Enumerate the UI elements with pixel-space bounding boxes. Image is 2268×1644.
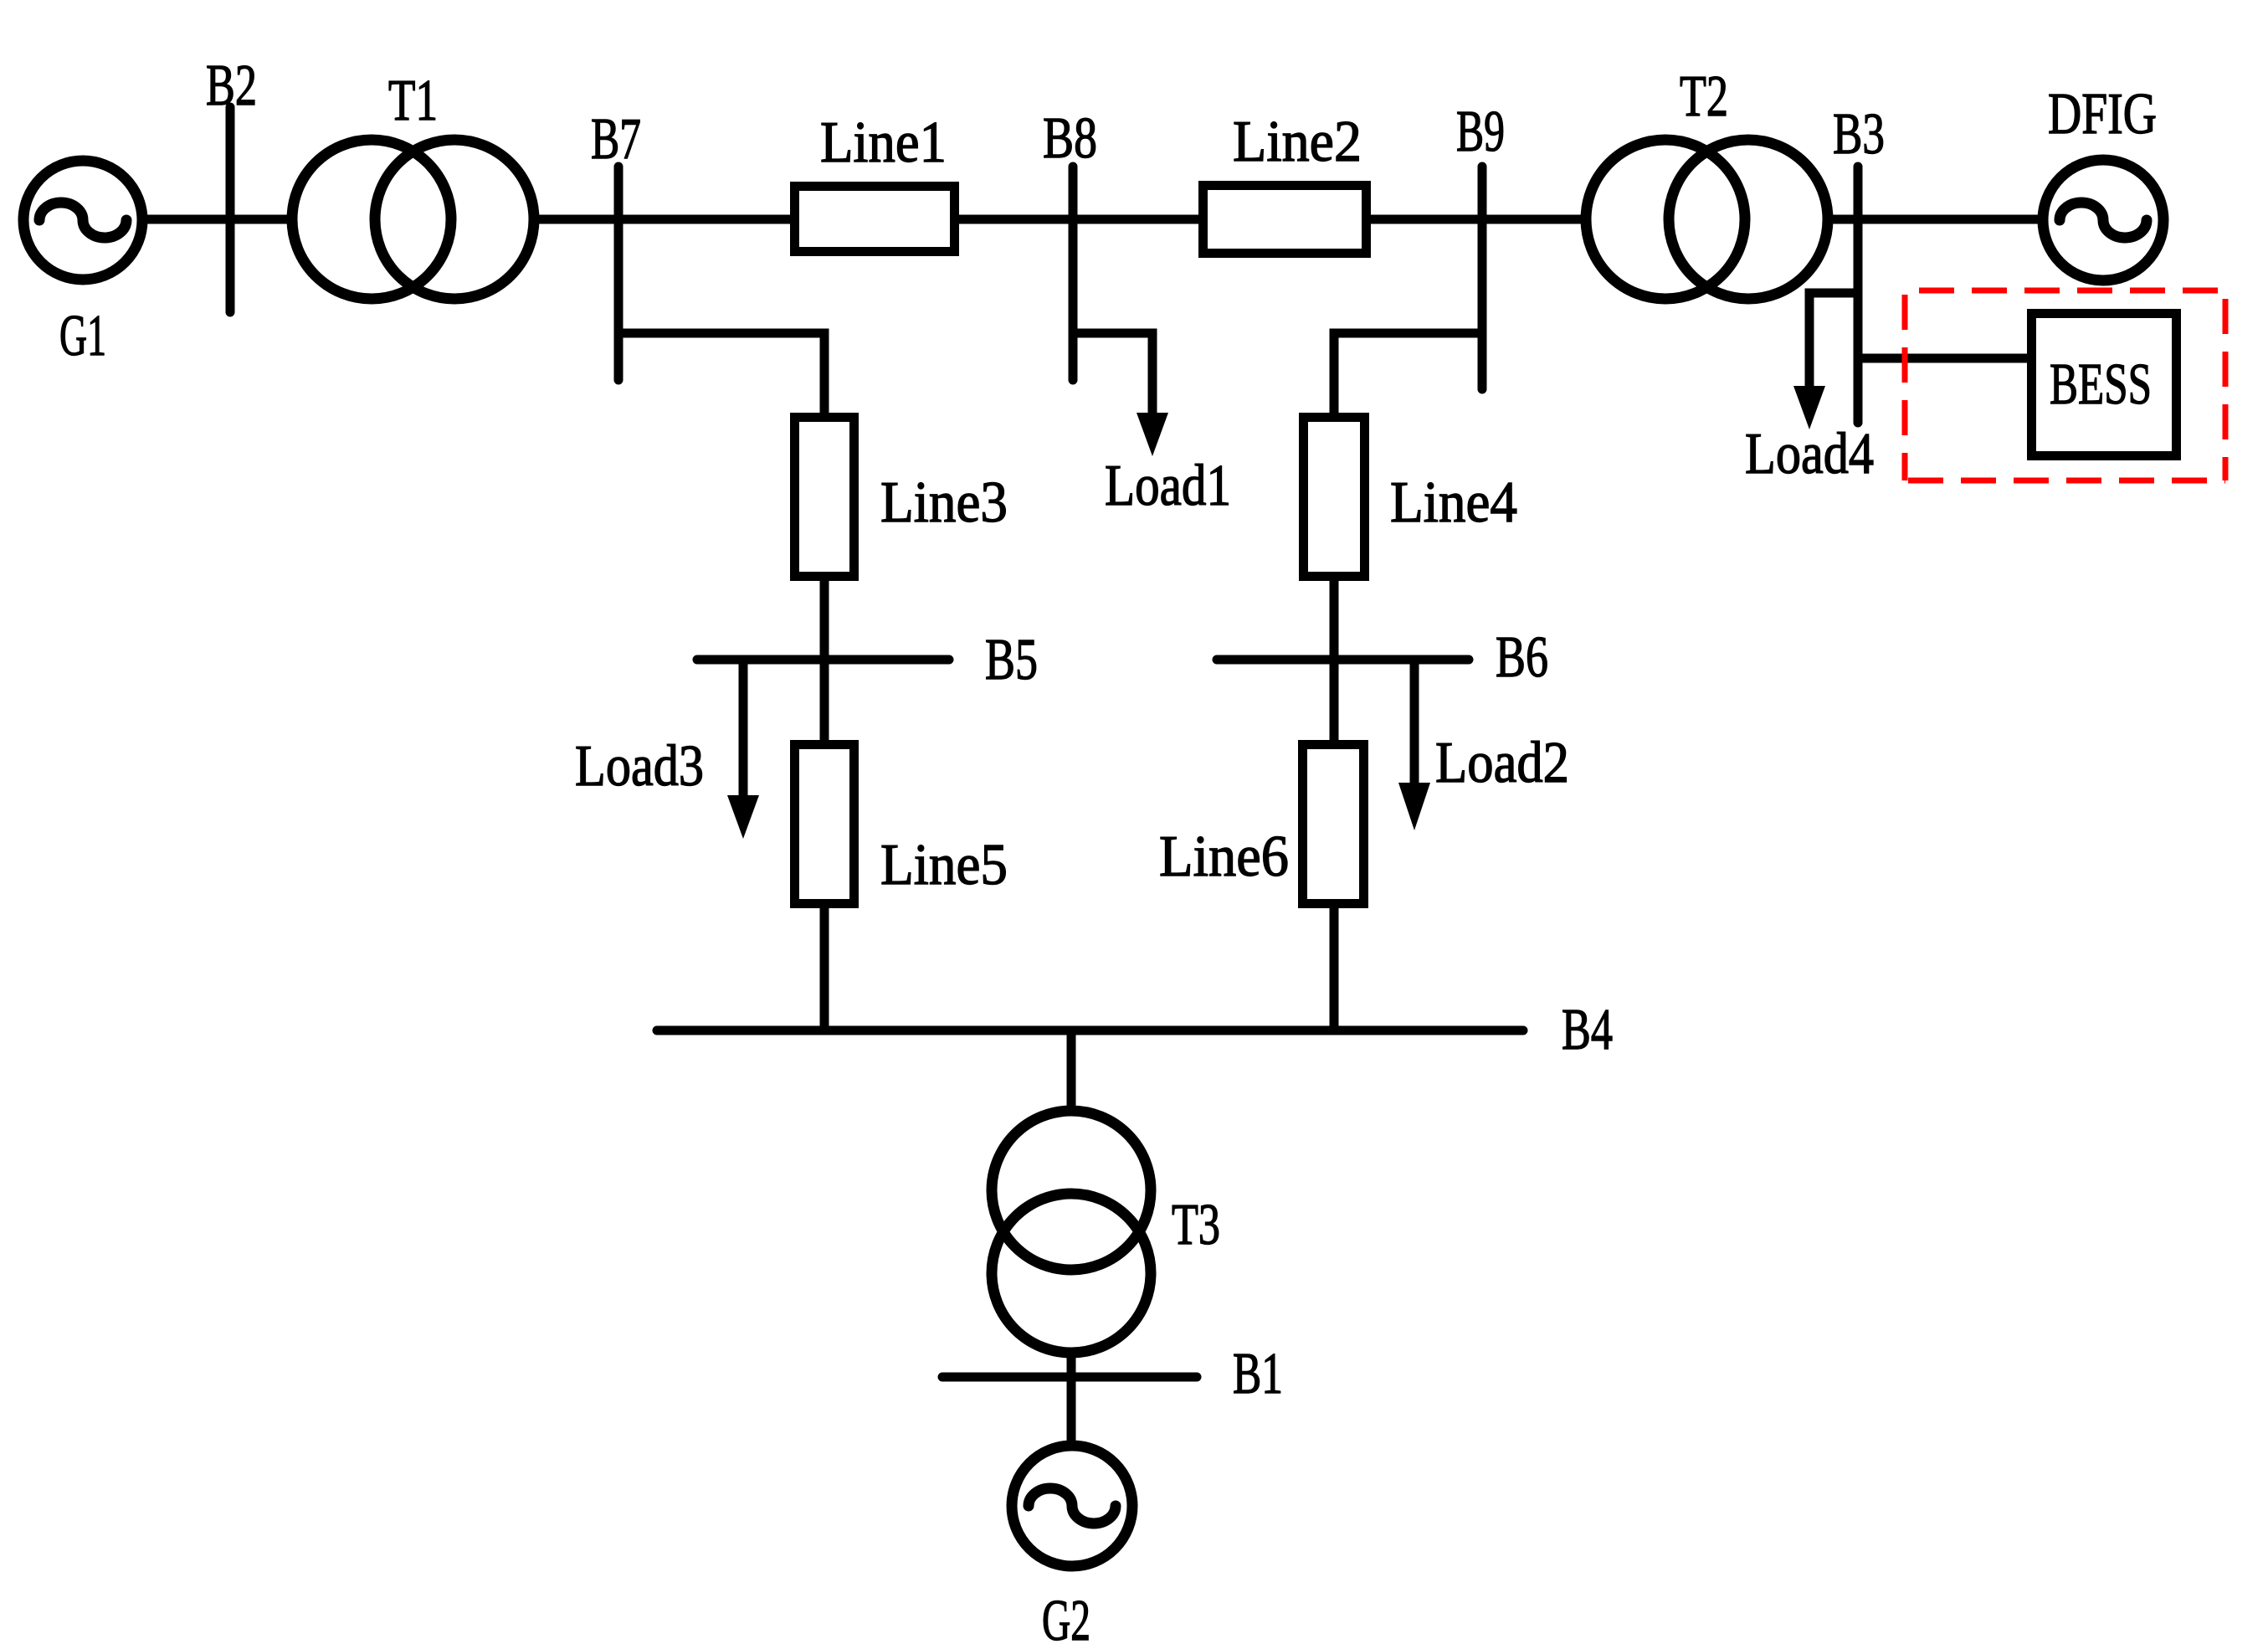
wire Line3 to B5 [820, 579, 829, 660]
line Line5 [795, 745, 854, 904]
svg-text:Load1: Load1 [1105, 454, 1231, 518]
wire T1 to Line1 [540, 215, 792, 224]
svg-text:Line2: Line2 [1233, 110, 1362, 174]
svg-text:T1: T1 [388, 69, 438, 133]
svg-text:B7: B7 [591, 107, 641, 172]
bus B2 [226, 107, 235, 312]
load Load3 arrow line [739, 660, 748, 799]
svg-text:Line5: Line5 [880, 833, 1008, 897]
wire B8 branch to Load1 [1073, 333, 1152, 417]
load Load1 arrowhead [1137, 413, 1168, 456]
load Load2 arrow line [1410, 660, 1419, 787]
generator G2 [1012, 1446, 1132, 1566]
svg-text:T3: T3 [1172, 1193, 1220, 1257]
load Load1 arrow line [1148, 333, 1157, 417]
wire B3 to BESS [1858, 354, 2029, 363]
transformer T1 [292, 140, 451, 299]
wire B4 to T3 [1067, 1030, 1076, 1108]
bus B9 [1478, 167, 1487, 389]
svg-text:G2: G2 [1042, 1589, 1090, 1644]
wire B5 to Line5 [820, 660, 829, 742]
bus B7 [614, 167, 623, 380]
svg-text:B3: B3 [1833, 102, 1885, 167]
svg-text:Line3: Line3 [880, 470, 1008, 535]
svg-text:Load2: Load2 [1435, 731, 1569, 795]
bus B6 [1217, 655, 1469, 665]
wire T3 to B1 [1067, 1355, 1076, 1377]
wire Line2 to T2 [1369, 215, 1583, 224]
svg-text:B1: B1 [1233, 1342, 1283, 1406]
generator DFIG [2043, 160, 2163, 280]
BESS red dashed boundary [1905, 290, 2225, 480]
wire Line4 to B6 [1330, 579, 1339, 660]
load Load2 arrowhead [1398, 783, 1430, 830]
svg-text:Load3: Load3 [575, 734, 704, 799]
svg-text:G1: G1 [59, 304, 106, 368]
wire Line1 to Line2 [957, 215, 1200, 224]
svg-text:B9: B9 [1456, 100, 1505, 164]
svg-text:Line4: Line4 [1390, 470, 1517, 535]
svg-text:DFIG: DFIG [2048, 82, 2157, 146]
line Line4 [1304, 418, 1365, 577]
svg-text:B4: B4 [1562, 998, 1613, 1062]
load Load4 arrowhead [1793, 386, 1825, 429]
svg-text:B5: B5 [985, 628, 1038, 692]
svg-text:B8: B8 [1043, 106, 1097, 171]
bus B1 [942, 1373, 1197, 1382]
svg-text:Line6: Line6 [1159, 825, 1289, 889]
generator G1 [23, 161, 142, 280]
line Line2 [1203, 186, 1367, 254]
svg-text:T2: T2 [1680, 64, 1728, 129]
transformer T3 [992, 1111, 1151, 1270]
svg-text:Line1: Line1 [820, 110, 947, 175]
bus B5 [697, 655, 949, 665]
bus B8 [1069, 167, 1078, 380]
transformer T2 [1586, 140, 1745, 299]
load Load3 arrowhead [727, 795, 759, 839]
wire B1 to G2 [1067, 1377, 1076, 1443]
bus B3 [1854, 167, 1863, 423]
svg-text:BESS: BESS [2050, 352, 2152, 417]
wire B9 branch to Line4 [1334, 333, 1482, 417]
bus B4 [657, 1026, 1523, 1035]
line Line6 [1303, 745, 1364, 904]
line Line3 [795, 418, 854, 577]
wire G1 to T1 [146, 215, 290, 224]
svg-text:B2: B2 [206, 54, 257, 118]
wire T2 to DFIG [1834, 215, 2039, 224]
svg-text:B6: B6 [1496, 625, 1548, 690]
wire Line5 to B4 [820, 907, 829, 1030]
wire Line6 to B4 [1330, 907, 1339, 1030]
load Load4 jog wire [1809, 293, 1858, 390]
svg-text:Load4: Load4 [1745, 422, 1874, 486]
BESS box [2032, 314, 2177, 456]
line Line1 [795, 187, 955, 252]
wire B7 branch to Line3 [618, 333, 824, 417]
wire B6 to Line6 [1330, 660, 1339, 742]
